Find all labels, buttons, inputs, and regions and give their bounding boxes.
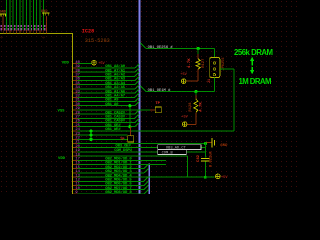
svg-text:256k DRAM: 256k DRAM [234,48,273,57]
wire [78,117,135,119]
svg-text:VDD: VDD [62,62,70,66]
net label box COM_B [158,150,187,155]
pin 23 stub [73,134,78,136]
junction [89,138,92,141]
svg-text:VDD: VDD [58,157,66,161]
pin 31 stub [73,101,78,103]
svg-text:VSS: VSS [58,109,66,113]
wire net OB1_OE256# [146,48,214,50]
svg-text:C82: C82 [197,154,201,162]
ground [211,138,213,148]
resistor R127 stub [197,69,199,81]
svg-text:4.7K: 4.7K [188,58,192,68]
wire [213,77,215,91]
bus entry [144,181,149,186]
pin number [37,25,38,27]
svg-text:OB1_OE256 #: OB1_OE256 # [148,46,174,50]
wire net OB3_OE [78,143,206,145]
pin number [17,25,18,27]
wire [78,164,166,166]
pin number [7,25,8,27]
svg-text:COM_B: COM_B [162,152,174,156]
pin number [4,25,5,27]
junction [204,176,207,179]
bus entry [135,76,139,80]
svg-text:1M DRAM: 1M DRAM [239,77,272,86]
bus entry [140,43,146,49]
power +5V [216,174,221,179]
pin stub [16,30,18,33]
wire [2,16,4,30]
pin number [21,25,22,27]
svg-text:OB2_MD8/OD_8: OB2_MD8/OD_8 [105,190,132,194]
pin number [1,25,2,27]
wire +5V rail [78,176,151,178]
bus entry [135,68,139,72]
pin stub [19,30,21,33]
pin 34 stub [73,88,78,90]
pin stub [42,30,44,33]
resistor R128 stub [195,95,197,99]
pin 10 stub [73,189,78,191]
wire [78,92,135,94]
svg-text:0.022uF: 0.022uF [209,151,213,168]
junction [204,142,207,145]
wire [129,106,131,127]
power +5V [92,60,97,65]
wire [78,101,135,103]
wire [78,122,135,124]
jumper pin 3 [213,74,215,76]
wire [195,92,197,95]
wire [78,130,234,132]
pin stub [46,30,48,33]
wire [187,156,189,177]
ground stub [206,142,211,144]
wire [78,96,135,98]
power +5V [182,122,187,127]
wire [19,0,21,30]
wire [213,49,215,58]
svg-text:TP: TP [155,102,160,106]
wire [39,0,41,30]
pin number [27,25,28,27]
wire [204,143,206,158]
pin 20 stub [73,147,78,149]
pin 12 stub [73,180,78,182]
pin 16 stub [73,164,78,166]
pin number [34,25,35,27]
capacitor C82 [201,157,210,159]
wire [78,109,151,111]
test point TP2 stub [150,109,155,111]
wire [78,134,128,136]
wire [78,80,135,82]
pin number [31,25,32,27]
pin number [14,25,15,27]
svg-text:J1: J1 [208,79,212,83]
wire [78,113,135,115]
wire [36,0,38,30]
pin number [11,25,12,27]
pin 30 stub [73,105,78,107]
pin stub [39,30,41,33]
svg-text:COM_DSPU: COM_DSPU [114,149,132,153]
pin stub [9,30,11,33]
IC U1 IC28 outline [0,34,73,195]
pin 26 stub [73,122,78,124]
pin 25 stub [73,126,78,128]
pin stub [2,30,4,33]
wire [78,155,188,157]
junction [197,47,200,50]
bus entry [144,185,149,190]
wire [78,71,135,73]
bus entry [135,85,139,89]
svg-text:+5V: +5V [181,116,188,120]
pin 39 stub [73,67,78,69]
bus entry [135,114,139,118]
svg-text:TP: TP [120,138,125,142]
bus entry [144,189,149,194]
pin number [41,25,42,27]
wire [9,0,11,30]
test point TP2 box [155,107,161,113]
bus entry [135,72,139,76]
pin 28 stub [73,113,78,115]
bus entry [135,110,139,114]
bus entry [135,64,139,68]
svg-text:GND: GND [220,144,228,148]
wire [197,49,199,55]
bus B1 [138,0,140,194]
wire [233,69,235,131]
svg-text:OB1_OE1M #: OB1_OE1M # [148,89,172,93]
junction [89,129,92,132]
wire [78,180,144,182]
pin 36 stub [73,80,78,82]
svg-text:R127: R127 [202,58,206,68]
wire [204,162,206,178]
resistor R128 [194,99,198,112]
pin stub [32,30,34,33]
wire [151,176,206,178]
wire VDD [78,63,92,65]
pin stub [29,30,31,33]
wire [42,0,44,30]
wire [46,16,48,30]
wire stub [187,124,196,126]
arrow up [251,59,253,66]
wire stub [186,80,199,82]
pin stub [12,30,14,33]
wire [90,131,92,139]
wire [78,126,135,128]
bus entry [135,81,139,85]
resistor R128 stub [195,112,197,124]
pin 35 stub [73,84,78,86]
pin 15 stub [73,168,78,170]
svg-text:+5V: +5V [221,176,228,180]
pin 37 stub [73,75,78,77]
wire [78,151,206,153]
bus entry [135,97,139,101]
pin 18 stub [73,155,78,157]
pin stub [36,30,38,33]
pin stub [22,30,24,33]
power +5V [181,79,186,84]
svg-text:+5V: +5V [180,73,187,77]
pin 14 stub [73,172,78,174]
pin number [24,25,25,27]
wire [22,0,24,30]
wire [78,88,135,90]
wire [12,0,14,30]
net label box OB3_AD_CT [158,145,201,150]
wire [16,0,18,30]
wire [78,67,135,69]
wire [220,68,234,70]
svg-text:OB1_A0: OB1_A0 [105,103,119,107]
bus entry [135,89,139,93]
junction [128,104,131,107]
test point TP box [128,136,134,142]
wire [26,0,28,30]
pin 29 stub [73,109,78,111]
pin 11 stub [73,185,78,187]
bus entry [135,118,139,122]
junction [89,134,92,137]
pin stub [6,30,8,33]
pin 9 stub [73,193,78,195]
wire [78,189,144,191]
jumper pin 2 [213,68,215,70]
bus entry [144,164,149,169]
wire [205,176,214,178]
arrow down [251,67,253,72]
svg-text:R128: R128 [189,102,193,112]
svg-text:4.7K: 4.7K [200,102,204,112]
pin 24 stub [73,130,78,132]
wire [29,0,31,30]
wire [78,172,144,174]
svg-text:G: G [42,36,45,38]
pin 21 stub [73,143,78,145]
pin number [44,25,45,27]
wire [78,138,128,140]
bus entry [135,123,139,127]
jumper pin 1 [213,62,215,64]
wire [78,185,144,187]
pin 38 stub [73,71,78,73]
bus entry [140,86,146,92]
pin 33 stub [73,92,78,94]
wire [78,159,166,161]
svg-text:OB1_WE#: OB1_WE# [105,128,121,132]
pin 19 stub [73,151,78,153]
resistor R127 [196,59,200,69]
test point TP stub [129,127,131,136]
junction [194,90,197,93]
wire [78,75,135,77]
jumper J1 body [210,58,220,78]
pin 17 stub [73,159,78,161]
wire [32,0,34,30]
pin 13 stub [73,176,78,178]
junction [128,125,131,128]
wire [78,105,135,107]
wire [78,147,206,149]
svg-text:315-5293: 315-5293 [85,38,110,44]
wire [78,168,144,170]
wire [78,84,135,86]
bus entry [135,102,139,106]
pin 40 stub [73,63,78,65]
bus entry [135,93,139,97]
pin 27 stub [73,117,78,119]
pin stub [26,30,28,33]
resistor R127 stub [197,54,199,59]
pin 22 stub [73,138,78,140]
svg-text:G: G [0,36,3,38]
bus B2 [148,164,150,194]
bus entry [144,168,149,173]
pin 32 stub [73,96,78,98]
wire [78,193,144,195]
bus entry [144,177,149,182]
svg-text:IC28: IC28 [82,29,94,35]
wire net OB1_OE1M# [146,91,214,93]
wire [6,0,8,30]
